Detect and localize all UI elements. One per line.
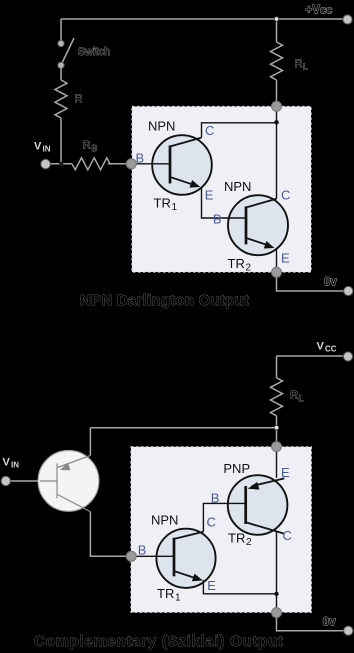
svg-text:R: R	[290, 390, 298, 402]
svg-text:B: B	[211, 490, 220, 505]
svg-text:B: B	[138, 542, 147, 557]
svg-text:IN: IN	[11, 461, 19, 470]
svg-text:V: V	[3, 457, 11, 469]
svg-text:CC: CC	[320, 6, 332, 16]
svg-text:E: E	[281, 251, 290, 266]
svg-text:V: V	[34, 141, 42, 153]
svg-text:TR: TR	[154, 196, 171, 211]
svg-text:L: L	[299, 393, 304, 403]
svg-text:L: L	[303, 62, 308, 72]
svg-text:TR: TR	[228, 531, 245, 546]
svg-text:0v: 0v	[324, 276, 337, 288]
svg-text:2: 2	[246, 537, 252, 548]
svg-text:E: E	[205, 187, 214, 202]
svg-text:B: B	[213, 212, 222, 227]
svg-text:B: B	[136, 150, 145, 165]
svg-text:PNP: PNP	[223, 461, 250, 476]
svg-text:IN: IN	[43, 145, 51, 154]
svg-text:R: R	[295, 58, 303, 70]
svg-text:R: R	[83, 140, 91, 152]
svg-text:TR: TR	[228, 256, 245, 271]
svg-text:TR: TR	[157, 586, 174, 601]
svg-text:1: 1	[175, 593, 181, 604]
svg-text:E: E	[281, 465, 290, 480]
svg-text:C: C	[205, 123, 214, 138]
svg-text:CC: CC	[325, 345, 337, 354]
svg-text:R: R	[75, 93, 83, 105]
svg-text:NPN: NPN	[151, 512, 178, 527]
svg-text:Complementary (Sziklai) Output: Complementary (Sziklai) Output	[34, 633, 283, 650]
svg-text:NPN: NPN	[224, 179, 251, 194]
svg-text:Switch: Switch	[78, 46, 110, 58]
svg-text:0v: 0v	[323, 617, 336, 629]
svg-text:+V: +V	[306, 5, 321, 17]
svg-text:C: C	[281, 187, 290, 202]
svg-text:B: B	[92, 143, 98, 153]
svg-text:NPN Darlington Output: NPN Darlington Output	[80, 292, 249, 309]
svg-text:1: 1	[172, 202, 178, 213]
svg-text:C: C	[283, 528, 292, 543]
svg-text:C: C	[207, 515, 216, 530]
svg-text:E: E	[207, 578, 216, 593]
svg-text:V: V	[317, 341, 325, 353]
svg-text:NPN: NPN	[148, 118, 175, 133]
svg-text:2: 2	[246, 263, 252, 274]
